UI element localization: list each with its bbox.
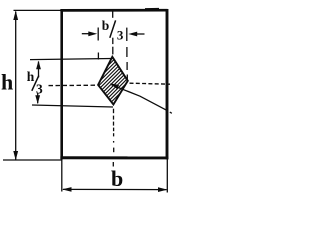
label b/3 (102, 18, 124, 42)
extension line bottom (for h dimension) (3, 159, 62, 161)
svg-text:h: h (1, 70, 13, 95)
extension line h/3 bottom (to kern bottom vertex) (32, 105, 113, 107)
vertical centreline (dash), above kern (112, 11, 114, 55)
extension line top (for h dimension) (14, 9, 63, 11)
extension line b/3 left (dashed, to kern left vertex) (97, 28, 99, 60)
svg-text:b: b (102, 18, 110, 33)
dimension line b (62, 187, 167, 192)
svg-text:b: b (111, 166, 123, 191)
outer rectangle section outline (60, 9, 168, 159)
vertical centreline (dash), below kern (113, 109, 115, 153)
dimension line h/3 (35, 61, 41, 104)
svg-text:3: 3 (117, 28, 124, 43)
kern (hatched rhombus core region) (94, 18, 134, 145)
horizontal centreline (dash), left of kern (49, 84, 98, 86)
svg-text:3: 3 (36, 81, 43, 96)
extension line h/3 top (to kern top vertex) (30, 59, 112, 60)
dimension line h (13, 11, 18, 161)
extension line below right edge (for b dimension) (166, 159, 168, 193)
dimension line b/3 (82, 31, 145, 36)
horizontal centreline (dash), right of kern (130, 83, 171, 84)
leader line from centroid to lower right (110, 83, 172, 113)
label h/3 (27, 69, 43, 97)
vertical centreline tick below bottom edge (112, 162, 114, 167)
extension line below left edge (for b dimension) (61, 159, 63, 192)
extension line b/3 right (dashed, to kern right vertex) (126, 28, 129, 80)
svg-text:h: h (27, 69, 35, 84)
